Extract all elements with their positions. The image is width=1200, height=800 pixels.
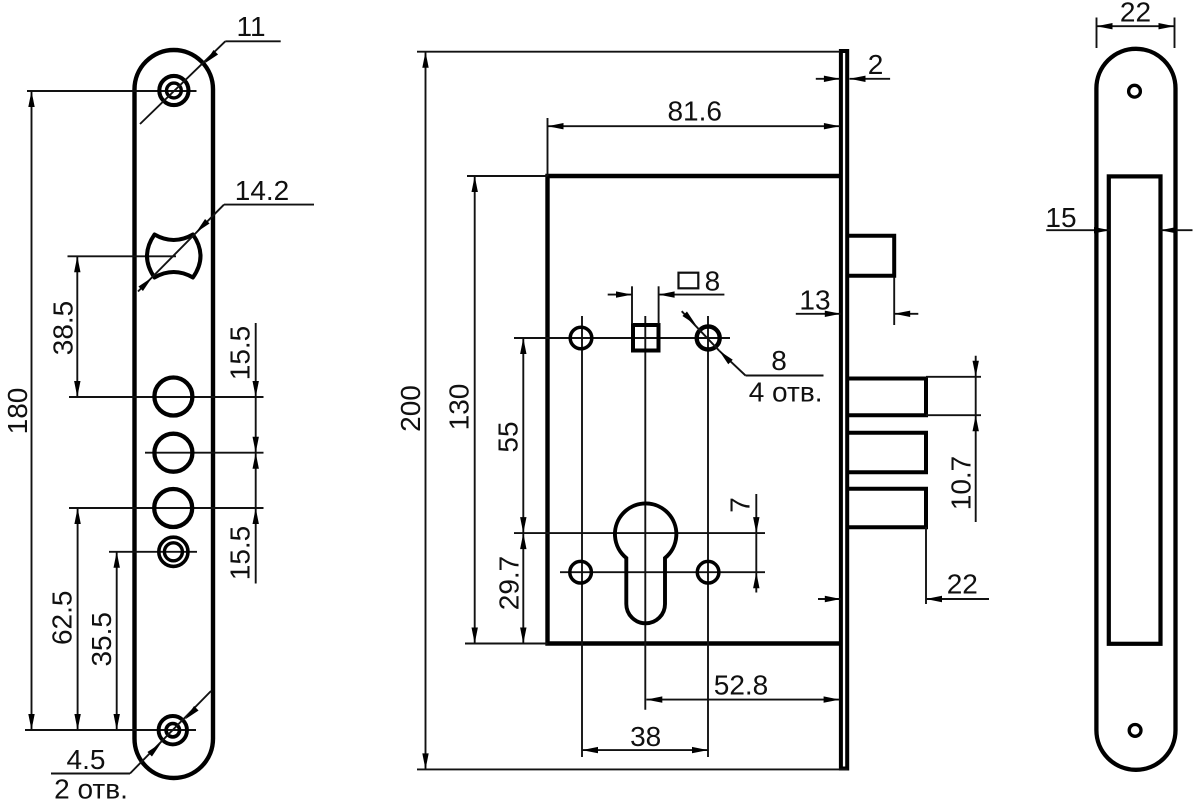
- svg-text:81.6: 81.6: [667, 95, 722, 126]
- svg-text:8: 8: [705, 266, 721, 297]
- deadbolt 3: [849, 489, 926, 528]
- vertical centerline left hole column: [581, 316, 583, 757]
- bottom screw hole outer: [159, 716, 187, 744]
- dim 10.7 top extension: [926, 376, 981, 378]
- small hole inner: [164, 543, 182, 561]
- dim 180 line: [28, 91, 34, 730]
- handle follower hole (hourglass): [147, 235, 201, 278]
- svg-text:200: 200: [395, 385, 426, 432]
- svg-text:2 отв.: 2 отв.: [54, 774, 128, 800]
- dim 35.5 line: [114, 552, 120, 730]
- leader 14.2: [138, 205, 314, 292]
- dim 15.5 pair line: [253, 323, 259, 584]
- dim square8 left extension: [631, 286, 633, 324]
- horizontal centerline bottom hole row: [560, 571, 765, 573]
- top row right hole: [697, 327, 720, 350]
- svg-text:4.5: 4.5: [67, 744, 106, 775]
- svg-text:15.5: 15.5: [225, 326, 256, 381]
- MIDDLE VIEW GROUP: [395, 49, 989, 769]
- dim 22 line: [1097, 23, 1175, 29]
- RIGHT VIEW GROUP: [1045, 0, 1192, 770]
- centerline small hole: [109, 551, 197, 553]
- svg-text:13: 13: [799, 285, 830, 316]
- centerline circle 2: [145, 452, 264, 454]
- square hole 8x8: [633, 325, 659, 351]
- svg-text:55: 55: [493, 421, 524, 452]
- dim 10.7 bottom extension: [926, 414, 981, 416]
- dim 13 line: [796, 311, 919, 317]
- top screw hole inner: [167, 83, 182, 98]
- svg-text:35.5: 35.5: [86, 612, 117, 667]
- centerline bottom screw hole: [25, 729, 196, 731]
- circle hole 1: [154, 378, 192, 416]
- centerline circle 1: [69, 396, 264, 398]
- euro cylinder hole: [615, 503, 676, 623]
- dim 81.6 left extension line: [547, 118, 549, 176]
- centerline circle 3: [69, 507, 264, 509]
- horizontal centerline cylinder: [514, 532, 765, 534]
- dim 22 left extension: [1096, 18, 1098, 49]
- deadbolt 2: [849, 433, 926, 473]
- dim 22 right extension: [1174, 18, 1176, 49]
- svg-text:38: 38: [630, 721, 661, 752]
- svg-text:15.5: 15.5: [225, 526, 256, 581]
- strike plate cutout: [1109, 176, 1161, 643]
- svg-text:15: 15: [1045, 202, 1076, 233]
- dim square8 right extension: [658, 286, 660, 324]
- svg-text:11: 11: [236, 11, 265, 42]
- lock body outline: [548, 176, 840, 644]
- svg-text:22: 22: [1120, 0, 1151, 28]
- small hole outer: [159, 537, 188, 566]
- dim 2 line: [816, 76, 890, 82]
- dim 13 extension line: [893, 278, 895, 326]
- dim 22 line: [818, 596, 989, 602]
- dim 7 line: [753, 494, 759, 593]
- dim 52.8 line: [646, 696, 839, 702]
- dim 62.5 line: [74, 508, 80, 730]
- dim 38.5 line: [74, 256, 80, 397]
- square symbol: [679, 273, 699, 289]
- top screw hole outer: [159, 76, 188, 105]
- top row left hole: [570, 327, 592, 349]
- centerline handle hole: [68, 255, 177, 257]
- dim 38 line: [582, 747, 708, 753]
- svg-text:14.2: 14.2: [235, 175, 290, 206]
- horizontal centerline top hole row: [514, 337, 730, 339]
- dim 130 top extension line: [467, 175, 548, 177]
- svg-text:29.7: 29.7: [494, 556, 525, 611]
- leader 11: [140, 41, 281, 124]
- svg-text:4 отв.: 4 отв.: [749, 377, 823, 408]
- svg-text:38.5: 38.5: [48, 301, 79, 356]
- strike top hole: [1129, 85, 1141, 97]
- dim 15 line: [1046, 227, 1192, 233]
- bottom screw hole inner: [166, 724, 179, 737]
- dim 10.7 line: [973, 356, 979, 522]
- strike bottom hole: [1129, 725, 1141, 737]
- dim 55 / 29.7 line: [520, 338, 526, 644]
- LEFT VIEW GROUP: [2, 11, 314, 800]
- dim 130 line: [472, 176, 478, 644]
- svg-text:8: 8: [771, 345, 787, 376]
- centerline top screw hole: [27, 90, 197, 92]
- svg-text:180: 180: [2, 388, 33, 435]
- svg-text:62.5: 62.5: [47, 591, 78, 646]
- svg-text:130: 130: [444, 384, 475, 431]
- dim 200 line: [422, 52, 428, 770]
- circle hole 2: [154, 434, 192, 472]
- circle hole 3: [154, 489, 192, 527]
- svg-text:10.7: 10.7: [946, 456, 977, 511]
- dim 81.6 line: [548, 123, 840, 129]
- faceplate front outline: [135, 50, 214, 778]
- leader 8 4otv: [682, 311, 824, 375]
- bottom row right hole: [697, 561, 719, 583]
- vertical centerline square/cylinder column: [644, 316, 646, 710]
- latch bolt: [849, 236, 895, 276]
- svg-text:22: 22: [947, 569, 978, 600]
- dim 130 bottom extension line: [465, 643, 548, 645]
- strike plate outline: [1096, 49, 1175, 770]
- deadbolt 1: [849, 379, 926, 416]
- dim 22 extension line: [925, 527, 927, 604]
- svg-text:7: 7: [725, 497, 756, 513]
- leader 4.5: [51, 691, 211, 774]
- bottom row left hole: [570, 561, 592, 583]
- vertical centerline right hole column: [707, 316, 709, 757]
- dim square8 line: [608, 291, 725, 297]
- dim 200 bottom extension line: [417, 768, 847, 770]
- svg-text:2: 2: [868, 49, 884, 80]
- dim 200 top extension line: [417, 51, 840, 53]
- faceplate side bar: [841, 51, 847, 769]
- svg-text:52.8: 52.8: [714, 670, 769, 701]
